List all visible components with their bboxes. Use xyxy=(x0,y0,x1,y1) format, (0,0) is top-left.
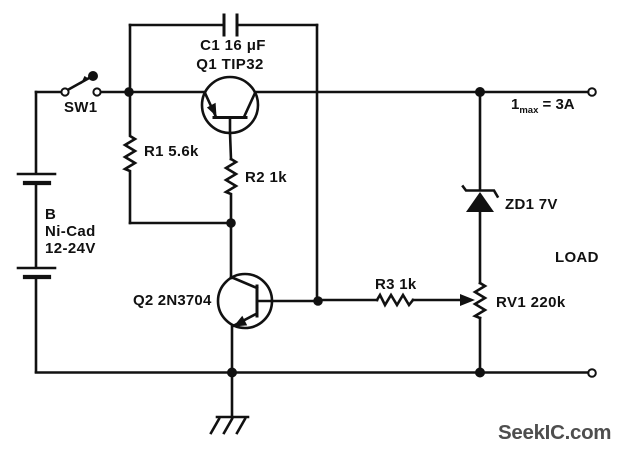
wire top rail right segment xyxy=(238,24,317,27)
wire node down to Q2 collector xyxy=(230,223,233,278)
svg-text:Q2 2N3704: Q2 2N3704 xyxy=(133,292,212,309)
transistor Q2 xyxy=(218,274,272,328)
node junction dot ground tap xyxy=(227,368,237,378)
node junction dot at switch/R1 xyxy=(124,87,134,97)
resistor R3 xyxy=(377,295,413,305)
wire Q1 collector to right rail xyxy=(255,91,588,94)
svg-text:R1 5.6k: R1 5.6k xyxy=(144,143,199,160)
wire Q2 emitter to bottom rail xyxy=(231,326,234,372)
terminal negative output xyxy=(588,369,596,377)
wire C1 column vertical down to Q2 base node xyxy=(316,25,319,301)
wire R3 to RV1 wiper arrow xyxy=(413,299,462,302)
wire bottom rail xyxy=(36,371,588,374)
svg-text:C1 16 μF: C1 16 μF xyxy=(200,37,266,54)
potentiometer RV1 xyxy=(475,283,485,318)
svg-text:LOAD: LOAD xyxy=(555,249,599,266)
node junction dot Q2 base / C1 column xyxy=(313,296,323,306)
svg-text:1max = 3A: 1max = 3A xyxy=(511,96,575,116)
node junction dot RV1 bottom xyxy=(475,368,485,378)
svg-text:R2 1k: R2 1k xyxy=(245,169,287,186)
wire RV1 bottom to bottom rail xyxy=(479,318,482,373)
wire node to R3 xyxy=(318,299,377,302)
transistor Q1 xyxy=(202,77,258,133)
svg-text:R3 1k: R3 1k xyxy=(375,276,417,293)
wire top rail left segment xyxy=(130,24,223,27)
ground xyxy=(211,372,248,433)
svg-text:Q1 TIP32: Q1 TIP32 xyxy=(196,56,263,73)
switch SW1 xyxy=(61,71,100,96)
wiper arrowhead of RV1 xyxy=(460,294,475,306)
wire Q2 base to node xyxy=(272,300,318,303)
battery B xyxy=(18,92,55,372)
wire Q1 base to R2 xyxy=(230,133,231,159)
terminal positive output xyxy=(588,88,596,96)
svg-text:SW1: SW1 xyxy=(64,99,97,116)
node junction dot at ZD1 top xyxy=(475,87,485,97)
capacitor C1 xyxy=(224,15,237,35)
svg-text:12-24V: 12-24V xyxy=(45,240,96,257)
svg-text:ZD1 7V: ZD1 7V xyxy=(505,196,558,213)
wire R1 bottom link to node xyxy=(130,222,231,225)
wire switch to Q1 emitter xyxy=(101,91,205,94)
resistor R2 xyxy=(226,159,236,223)
svg-text:RV1 220k: RV1 220k xyxy=(496,294,566,311)
node junction dot R1/R2/Q2 collector xyxy=(226,218,236,228)
resistor R1 xyxy=(125,92,135,223)
wire battery to switch xyxy=(36,91,61,94)
svg-text:Ni-Cad: Ni-Cad xyxy=(45,223,96,240)
svg-text:SeekIC.com: SeekIC.com xyxy=(498,421,611,444)
wire left vertical from top rail to main rail xyxy=(129,25,132,92)
svg-text:B: B xyxy=(45,206,56,223)
zener diode ZD1 xyxy=(463,92,498,283)
